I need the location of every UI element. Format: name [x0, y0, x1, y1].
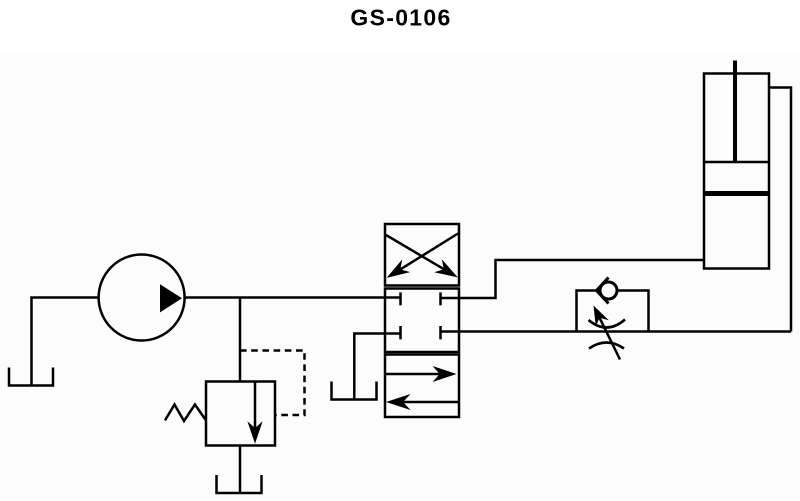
port T blocked T-bar with stub: [385, 326, 401, 339]
cylinder CYL1 piston: [704, 162, 769, 195]
wire valve port B to flow control and cylinder rod end: [441, 330, 792, 333]
reservoir tank T3: [332, 382, 377, 400]
throttle lower arc: [589, 343, 624, 349]
port P blocked T-bar: [399, 292, 402, 305]
directional valve DV1 crossed arrow B: [387, 234, 458, 278]
flow control FC1 bypass loop: [577, 291, 649, 332]
cylinder CYL1 barrel: [704, 74, 769, 269]
reservoir tank T2: [217, 475, 262, 493]
pump P1 flow triangle: [160, 284, 182, 312]
bottom box arrow left: [386, 394, 459, 410]
bottom box arrow right: [386, 366, 457, 382]
cylinder CYL1 piston rod: [733, 61, 737, 163]
reservoir tank T1: [9, 368, 53, 386]
relief valve RV1 pilot line (dashed): [240, 351, 305, 416]
relief valve RV1 internal arrow: [247, 382, 262, 444]
directional valve DV1 bottom box: [385, 355, 459, 418]
check valve CV1 ball: [600, 282, 617, 299]
relief valve RV1 body: [206, 382, 275, 446]
port B blocked T-bar: [439, 326, 442, 339]
pump P1 circle: [99, 255, 185, 341]
throttle adjustment arrow: [594, 306, 621, 360]
svg-text:GS-0106: GS-0106: [350, 5, 451, 31]
wire pump outlet to valve port P: [185, 296, 401, 299]
wire junction to relief valve: [239, 298, 242, 382]
check valve CV1 seat: [597, 278, 609, 304]
directional valve DV1 top box: [385, 224, 459, 286]
wire tank1 to pump inlet: [32, 298, 100, 386]
wire cylinder rod end port to right bus: [769, 88, 791, 332]
relief valve RV1 spring: [165, 405, 206, 422]
wire relief valve to tank2: [239, 446, 242, 494]
wire valve port T to tank3: [354, 334, 385, 400]
directional valve DV1 crossed arrow A: [386, 235, 458, 277]
throttle upper arc: [589, 320, 626, 328]
port A blocked T-bar with stub: [441, 292, 460, 305]
directional valve DV1 middle box: [385, 289, 459, 353]
wire valve port A to cylinder cap end: [459, 260, 704, 298]
